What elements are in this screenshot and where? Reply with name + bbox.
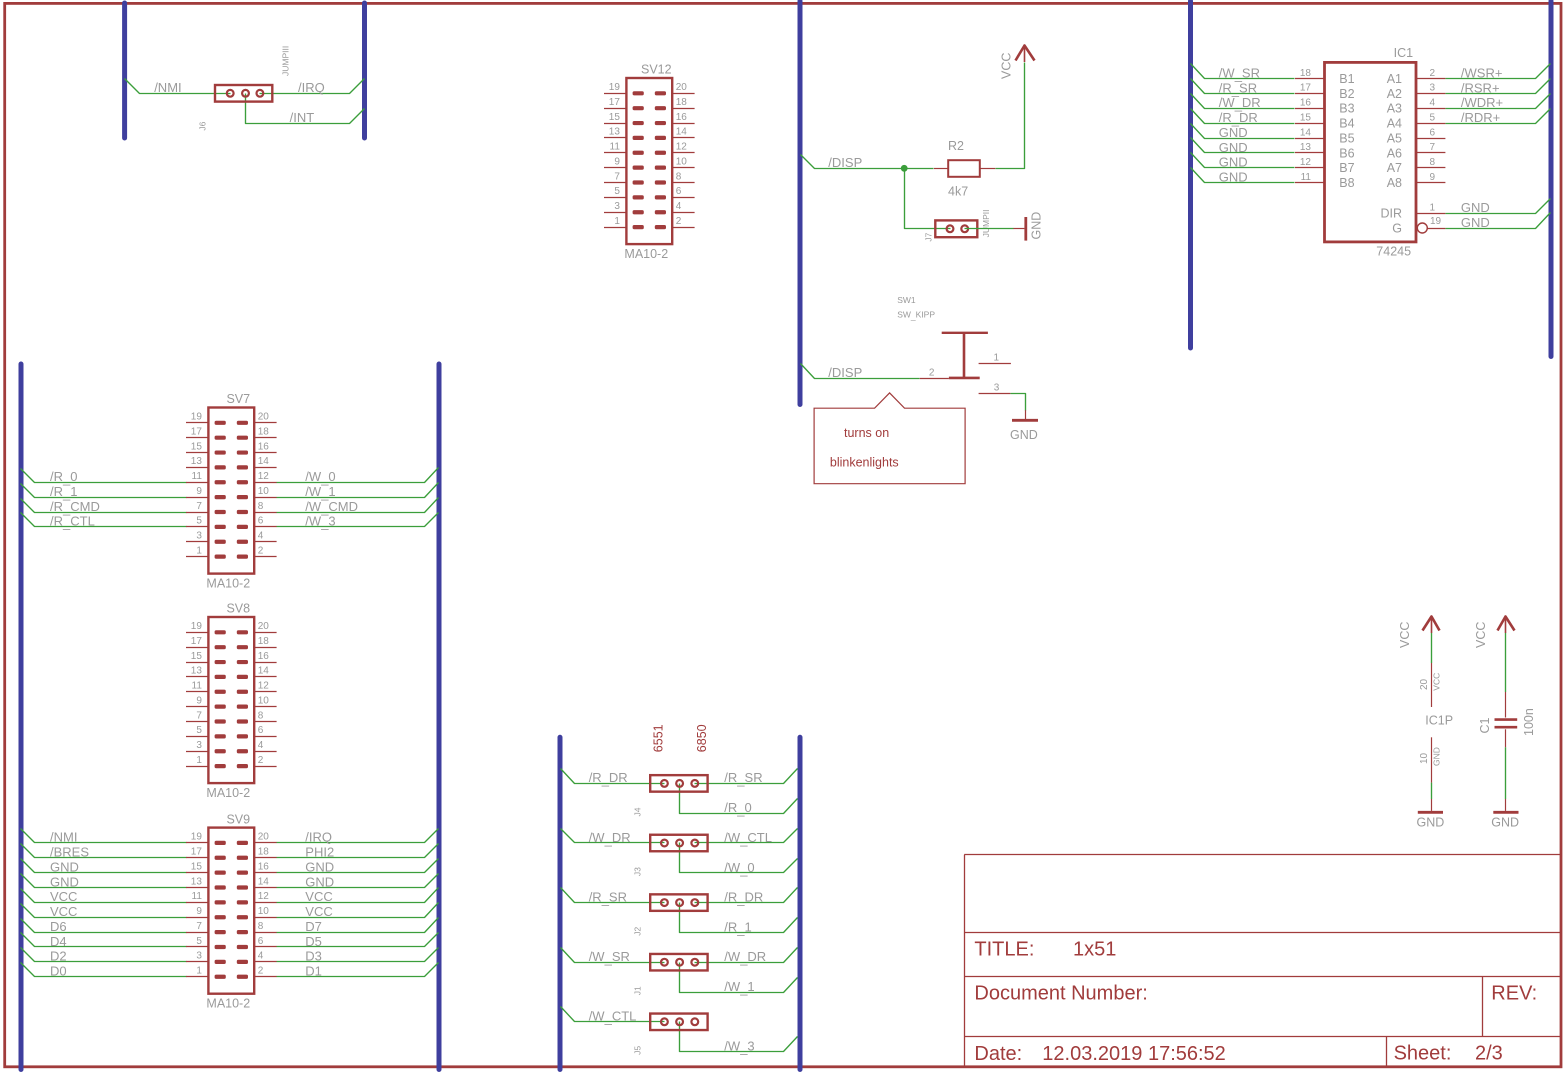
svg-text:6: 6 <box>258 725 264 736</box>
wire /R_1 (from jumper J2 center) <box>680 903 798 933</box>
svg-text:/R_SR: /R_SR <box>589 889 627 906</box>
svg-text:8: 8 <box>258 710 264 721</box>
svg-text:14: 14 <box>258 456 270 467</box>
svg-text:1: 1 <box>1430 202 1436 213</box>
wire /R_DR (to jumper J4) <box>561 769 665 784</box>
svg-text:19: 19 <box>191 412 203 423</box>
svg-text:1: 1 <box>196 755 202 766</box>
capacitor C1 <box>1495 692 1518 747</box>
svg-text:MA10-2: MA10-2 <box>624 247 668 261</box>
wire /IRQ <box>260 79 365 94</box>
svg-text:2: 2 <box>676 216 682 227</box>
svg-text:4k7: 4k7 <box>948 184 968 198</box>
svg-text:/R_CTL: /R_CTL <box>50 514 95 531</box>
svg-text:JUMPII: JUMPII <box>981 210 991 238</box>
svg-text:/WDR+: /WDR+ <box>1461 95 1503 110</box>
svg-text:9: 9 <box>196 695 202 706</box>
svg-text:B5: B5 <box>1339 131 1354 145</box>
svg-text:8: 8 <box>676 171 682 182</box>
svg-text:/W_3: /W_3 <box>724 1039 754 1056</box>
wire /W_SR (to jumper J1) <box>561 948 665 963</box>
bus segment bottom middle left (jumpers) <box>558 737 563 1069</box>
svg-text:7: 7 <box>1430 142 1436 153</box>
svg-text:/IRQ: /IRQ <box>305 830 332 845</box>
wire SW1 pin 3 to GND <box>1011 394 1026 411</box>
svg-text:5: 5 <box>196 936 202 947</box>
svg-text:GND: GND <box>1491 816 1519 830</box>
jumper J7 <box>935 220 977 237</box>
svg-text:20: 20 <box>258 832 270 843</box>
svg-text:2: 2 <box>258 545 264 556</box>
jumper J1 <box>650 954 707 971</box>
svg-text:100n: 100n <box>1522 708 1536 736</box>
svg-text:7: 7 <box>614 171 620 182</box>
wire /RDR+ to right bus <box>1446 109 1551 124</box>
bus segment mid left (SV7/SV8/SV9 right) <box>437 364 442 1070</box>
wire /INT <box>246 94 365 124</box>
svg-text:VCC: VCC <box>1398 622 1412 648</box>
svg-text:/RSR+: /RSR+ <box>1461 80 1500 95</box>
svg-text:VCC: VCC <box>305 889 332 904</box>
svg-text:15: 15 <box>191 861 203 872</box>
svg-text:16: 16 <box>1300 98 1312 109</box>
svg-text:A4: A4 <box>1387 117 1402 131</box>
svg-text:17: 17 <box>191 426 203 437</box>
svg-text:1: 1 <box>614 216 620 227</box>
svg-text:2: 2 <box>1430 68 1436 79</box>
ground symbol (C1) <box>1493 799 1518 812</box>
svg-text:J5: J5 <box>633 1046 643 1055</box>
wire /DISP to R2 <box>801 155 934 169</box>
bus segment top (J6 right) <box>362 3 367 138</box>
wire GND to IC1 pin 11 <box>1191 168 1295 183</box>
svg-text:SV12: SV12 <box>641 63 672 77</box>
svg-text:1x51: 1x51 <box>1073 939 1116 961</box>
svg-text:6850: 6850 <box>695 724 709 752</box>
svg-text:A8: A8 <box>1387 176 1402 190</box>
svg-text:C1: C1 <box>1478 717 1492 733</box>
svg-text:11: 11 <box>192 891 203 902</box>
svg-text:GND: GND <box>1219 169 1248 184</box>
wire /W_0 (from jumper J3 center) <box>680 843 798 873</box>
resistor R2 <box>934 160 995 177</box>
svg-text:A7: A7 <box>1387 161 1402 175</box>
svg-text:12: 12 <box>258 681 270 692</box>
wire /W_CTL (to jumper J5) <box>561 1007 665 1022</box>
svg-text:/W_CTL: /W_CTL <box>589 1009 637 1026</box>
wire /WSR+ to right bus <box>1446 64 1551 79</box>
ground symbol (right of J7, rotated) <box>1013 217 1025 241</box>
svg-text:GND: GND <box>1010 428 1038 442</box>
svg-text:D3: D3 <box>305 949 322 964</box>
VCC supply symbol (IC1P) <box>1423 616 1440 633</box>
svg-text:B1: B1 <box>1339 72 1354 86</box>
svg-text:4: 4 <box>676 201 682 212</box>
svg-text:3: 3 <box>196 951 202 962</box>
svg-text:VCC: VCC <box>1000 53 1014 79</box>
wire /NMI <box>125 79 231 94</box>
svg-text:/RDR+: /RDR+ <box>1461 110 1500 125</box>
svg-text:4: 4 <box>258 951 264 962</box>
svg-text:/W_1: /W_1 <box>724 979 754 996</box>
svg-text:5: 5 <box>614 186 620 197</box>
svg-text:12: 12 <box>1300 157 1312 168</box>
svg-text:/WSR+: /WSR+ <box>1461 65 1503 80</box>
svg-text:9: 9 <box>196 906 202 917</box>
svg-text:GND: GND <box>305 874 334 889</box>
bus segment right of center (IC1 left) <box>1188 1 1193 348</box>
svg-text:1: 1 <box>994 353 1000 364</box>
svg-text:3: 3 <box>196 531 202 542</box>
wire VCC to IC1P pin 20 <box>1431 633 1433 663</box>
svg-text:16: 16 <box>258 651 270 662</box>
svg-text:14: 14 <box>1300 127 1312 138</box>
svg-text:DIR: DIR <box>1380 207 1402 221</box>
svg-text:SV8: SV8 <box>226 602 250 616</box>
svg-text:18: 18 <box>258 426 270 437</box>
junction node on /DISP <box>901 165 908 172</box>
svg-text:9: 9 <box>1430 172 1436 183</box>
wire /W_3 (from jumper J5 center) <box>680 1022 798 1052</box>
svg-text:/INT: /INT <box>290 110 315 125</box>
svg-text:/NMI: /NMI <box>50 830 77 845</box>
svg-text:9: 9 <box>196 486 202 497</box>
svg-text:6: 6 <box>676 186 682 197</box>
bus segment center top (/DISP) <box>798 1 803 405</box>
svg-text:D4: D4 <box>50 934 67 949</box>
svg-text:SW1: SW1 <box>897 295 916 305</box>
svg-text:A6: A6 <box>1387 146 1402 160</box>
wire GND to IC1 pin 13 <box>1191 138 1295 153</box>
svg-text:turns on: turns on <box>844 426 889 440</box>
svg-text:/R_1: /R_1 <box>724 919 751 936</box>
svg-text:20: 20 <box>258 412 270 423</box>
svg-text:/NMI: /NMI <box>154 80 181 95</box>
bus segment bottom middle right (jumpers) <box>798 737 803 1069</box>
svg-text:6551: 6551 <box>652 724 666 752</box>
wire GND to IC1 pin 14 <box>1191 124 1295 139</box>
svg-text:11: 11 <box>192 681 203 692</box>
svg-text:MA10-2: MA10-2 <box>206 576 250 590</box>
svg-text:6: 6 <box>258 936 264 947</box>
svg-text:MA10-2: MA10-2 <box>206 786 250 800</box>
svg-text:7: 7 <box>196 710 202 721</box>
svg-text:13: 13 <box>191 456 203 467</box>
bus segment left edge (SV7/SV8/SV9) <box>19 364 24 1070</box>
wire /R_SR (to jumper J2) <box>561 888 665 903</box>
svg-text:/W_DR: /W_DR <box>589 830 631 847</box>
svg-text:3: 3 <box>614 201 620 212</box>
svg-text:19: 19 <box>1430 216 1442 227</box>
svg-text:/BRES: /BRES <box>50 845 89 860</box>
note callout box: turns on blinkenlights <box>814 393 965 484</box>
wire /R_0 (from jumper J4 center) <box>680 784 798 814</box>
svg-text:17: 17 <box>191 636 203 647</box>
wire /RSR+ to right bus <box>1446 79 1551 94</box>
title block <box>964 855 1561 1067</box>
svg-text:D5: D5 <box>305 934 322 949</box>
svg-text:13: 13 <box>609 127 621 138</box>
svg-text:GND: GND <box>1219 140 1248 155</box>
wire /R_DR (from jumper J2) <box>695 888 798 903</box>
svg-text:15: 15 <box>609 112 621 123</box>
svg-text:10: 10 <box>676 156 688 167</box>
ground symbol (below SW1) <box>1012 410 1038 420</box>
svg-text:J4: J4 <box>633 807 643 816</box>
svg-text:14: 14 <box>676 127 688 138</box>
value label MA10-2 (SV8) <box>186 617 277 783</box>
svg-text:74245: 74245 <box>1376 244 1411 258</box>
svg-text:/W_0: /W_0 <box>724 860 754 877</box>
svg-text:D1: D1 <box>305 964 322 979</box>
svg-text:VCC: VCC <box>1431 673 1441 691</box>
svg-text:11: 11 <box>1301 172 1312 183</box>
svg-text:GND: GND <box>50 874 79 889</box>
wire GND to IC1 pin 12 <box>1191 153 1295 168</box>
svg-text:6: 6 <box>258 516 264 527</box>
svg-text:MA10-2: MA10-2 <box>206 997 250 1011</box>
svg-text:D0: D0 <box>50 964 67 979</box>
svg-text:10: 10 <box>258 906 270 917</box>
svg-text:11: 11 <box>192 471 203 482</box>
svg-text:20: 20 <box>258 621 270 632</box>
svg-text:A2: A2 <box>1387 87 1402 101</box>
wire /DISP to SW1 pin 2 <box>801 364 920 379</box>
svg-text:/DISP: /DISP <box>828 155 862 170</box>
svg-text:4: 4 <box>1430 98 1436 109</box>
wire /W_SR to IC1 pin 18 <box>1191 64 1295 79</box>
svg-text:17: 17 <box>609 97 621 108</box>
svg-text:20: 20 <box>1419 678 1430 690</box>
wire J7 to GND <box>965 228 1014 230</box>
value label MA10-2 (SV9) <box>21 829 187 843</box>
svg-text:REV:: REV: <box>1491 983 1537 1005</box>
svg-text:Document Number:: Document Number: <box>974 983 1147 1005</box>
svg-text:10: 10 <box>258 486 270 497</box>
wire GND (IC1 DIR pin) <box>1446 199 1551 214</box>
svg-text:B2: B2 <box>1339 87 1354 101</box>
svg-text:19: 19 <box>609 82 621 93</box>
jumper J6 <box>215 85 272 102</box>
svg-text:J3: J3 <box>633 867 643 876</box>
svg-text:15: 15 <box>1300 112 1312 123</box>
svg-text:12: 12 <box>676 142 688 153</box>
wire IC1P pin 10 to GND <box>1431 783 1433 799</box>
svg-text:B6: B6 <box>1339 146 1354 160</box>
svg-text:2: 2 <box>258 755 264 766</box>
svg-text:15: 15 <box>191 651 203 662</box>
svg-text:J2: J2 <box>633 926 643 935</box>
svg-text:SW_KIPP: SW_KIPP <box>897 310 935 322</box>
svg-text:VCC: VCC <box>1474 622 1488 648</box>
svg-text:SV7: SV7 <box>226 392 250 406</box>
svg-text:17: 17 <box>191 847 203 858</box>
bus segment far right (IC1 right) <box>1549 1 1554 357</box>
IC IC1 74245 <box>1295 62 1445 242</box>
svg-text:15: 15 <box>191 441 203 452</box>
svg-text:18: 18 <box>676 97 688 108</box>
svg-text:14: 14 <box>258 876 270 887</box>
svg-text:D7: D7 <box>305 919 322 934</box>
wire VCC to C1 <box>1505 633 1507 692</box>
svg-text:/W_DR: /W_DR <box>724 949 766 966</box>
power part IC1P (74245 power pins) <box>1419 663 1441 783</box>
svg-text:GND: GND <box>1431 747 1441 766</box>
wire /W_DR (from jumper J1) <box>695 948 798 963</box>
svg-text:VCC: VCC <box>50 904 77 919</box>
svg-text:GND: GND <box>1219 155 1248 170</box>
svg-text:/R_SR: /R_SR <box>724 770 762 787</box>
wire C1 to GND <box>1505 747 1507 799</box>
switch SW1 (SW_KIPP) <box>920 333 1011 394</box>
svg-text:13: 13 <box>1300 142 1312 153</box>
svg-text:JUMPIII: JUMPIII <box>281 46 291 76</box>
svg-text:B8: B8 <box>1339 176 1354 190</box>
svg-text:8: 8 <box>1430 157 1436 168</box>
svg-text:B4: B4 <box>1339 117 1354 131</box>
svg-text:10: 10 <box>1419 752 1430 764</box>
svg-text:GND: GND <box>1030 212 1044 240</box>
svg-text:2: 2 <box>929 367 935 378</box>
svg-text:20: 20 <box>676 82 688 93</box>
svg-text:19: 19 <box>191 832 203 843</box>
svg-text:J7: J7 <box>924 232 934 241</box>
svg-text:1: 1 <box>196 545 202 556</box>
svg-text:VCC: VCC <box>305 904 332 919</box>
svg-text:IC1: IC1 <box>1394 46 1414 60</box>
svg-text:VCC: VCC <box>50 889 77 904</box>
wire GND (IC1 G pin) <box>1446 213 1551 229</box>
svg-text:5: 5 <box>196 516 202 527</box>
svg-text:A1: A1 <box>1387 72 1402 86</box>
jumper J2 <box>650 894 707 911</box>
svg-text:GND: GND <box>1461 215 1490 230</box>
VCC supply symbol (C1) <box>1498 616 1515 633</box>
wire /R_SR (from jumper J4) <box>695 769 798 784</box>
svg-text:J1: J1 <box>633 986 643 995</box>
svg-text:Sheet:: Sheet: <box>1394 1043 1452 1065</box>
svg-text:11: 11 <box>610 142 621 153</box>
svg-text:2: 2 <box>258 966 264 977</box>
svg-text:/R_DR: /R_DR <box>724 889 763 906</box>
svg-text:7: 7 <box>196 501 202 512</box>
svg-text:GND: GND <box>1417 816 1445 830</box>
svg-text:B3: B3 <box>1339 102 1354 116</box>
svg-text:/IRQ: /IRQ <box>298 80 325 95</box>
svg-text:GND: GND <box>1219 125 1248 140</box>
wire /W_1 (from jumper J1 center) <box>680 963 798 993</box>
wire junction to J7 <box>905 169 951 229</box>
svg-text:18: 18 <box>258 847 270 858</box>
VCC supply symbol (top) <box>1016 46 1035 63</box>
svg-text:3: 3 <box>196 740 202 751</box>
svg-text:19: 19 <box>191 621 203 632</box>
svg-text:5: 5 <box>196 725 202 736</box>
svg-text:1: 1 <box>196 966 202 977</box>
wire /R_SR to IC1 pin 17 <box>1191 79 1295 94</box>
svg-text:GND: GND <box>50 859 79 874</box>
jumper J5 <box>650 1014 707 1031</box>
svg-text:2/3: 2/3 <box>1475 1043 1503 1065</box>
svg-text:16: 16 <box>258 441 270 452</box>
value label MA10-2 (SV7) <box>21 469 187 483</box>
svg-text:10: 10 <box>258 695 270 706</box>
svg-text:/W_SR: /W_SR <box>589 949 630 966</box>
svg-text:14: 14 <box>258 666 270 677</box>
wire R2 to VCC <box>996 63 1025 169</box>
svg-text:7: 7 <box>196 921 202 932</box>
svg-text:12: 12 <box>258 471 270 482</box>
wire /R_DR to IC1 pin 15 <box>1191 109 1295 124</box>
svg-text:13: 13 <box>191 666 203 677</box>
svg-text:/R_DR: /R_DR <box>589 770 628 787</box>
svg-text:A5: A5 <box>1387 131 1402 145</box>
wire /WDR+ to right bus <box>1446 94 1551 109</box>
svg-text:B7: B7 <box>1339 161 1354 175</box>
svg-text:18: 18 <box>258 636 270 647</box>
svg-text:/DISP: /DISP <box>828 365 862 380</box>
svg-text:3: 3 <box>1430 83 1436 94</box>
svg-text:18: 18 <box>1300 68 1312 79</box>
svg-text:9: 9 <box>614 156 620 167</box>
jumper J3 <box>650 835 707 852</box>
svg-text:IC1P: IC1P <box>1425 714 1453 728</box>
value label MA10-2 (SV12) <box>604 78 695 244</box>
svg-text:3: 3 <box>994 383 1000 394</box>
svg-text:A3: A3 <box>1387 102 1402 116</box>
svg-text:12: 12 <box>258 891 270 902</box>
wire /W_DR to IC1 pin 16 <box>1191 94 1295 109</box>
svg-text:6: 6 <box>1430 127 1436 138</box>
svg-text:16: 16 <box>258 861 270 872</box>
svg-text:TITLE:: TITLE: <box>974 939 1034 961</box>
svg-text:blinkenlights: blinkenlights <box>830 455 899 469</box>
svg-text:GND: GND <box>1461 200 1490 215</box>
svg-text:17: 17 <box>1300 83 1312 94</box>
svg-text:13: 13 <box>191 876 203 887</box>
svg-text:8: 8 <box>258 921 264 932</box>
svg-text:R2: R2 <box>948 139 964 153</box>
svg-text:5: 5 <box>1430 112 1436 123</box>
wire /W_DR (to jumper J3) <box>561 829 665 843</box>
svg-text:/R_0: /R_0 <box>724 800 751 817</box>
svg-text:8: 8 <box>258 501 264 512</box>
ground symbol (IC1P) <box>1418 799 1443 812</box>
svg-text:12.03.2019 17:56:52: 12.03.2019 17:56:52 <box>1042 1043 1226 1065</box>
svg-text:/W_CTL: /W_CTL <box>724 830 772 847</box>
svg-text:SV9: SV9 <box>226 812 250 826</box>
svg-text:D6: D6 <box>50 919 67 934</box>
svg-text:4: 4 <box>258 740 264 751</box>
svg-text:4: 4 <box>258 531 264 542</box>
svg-text:Date:: Date: <box>974 1043 1022 1065</box>
svg-text:PHI2: PHI2 <box>305 845 334 860</box>
svg-text:GND: GND <box>305 859 334 874</box>
svg-text:/W_3: /W_3 <box>305 514 335 531</box>
svg-text:D2: D2 <box>50 949 67 964</box>
svg-text:J6: J6 <box>198 121 208 130</box>
jumper J4 <box>650 775 707 792</box>
svg-text:16: 16 <box>676 112 688 123</box>
svg-text:G: G <box>1392 221 1402 235</box>
wire /W_CTL (from jumper J3) <box>695 829 798 843</box>
bus segment top-left (J6 left) <box>122 3 127 138</box>
